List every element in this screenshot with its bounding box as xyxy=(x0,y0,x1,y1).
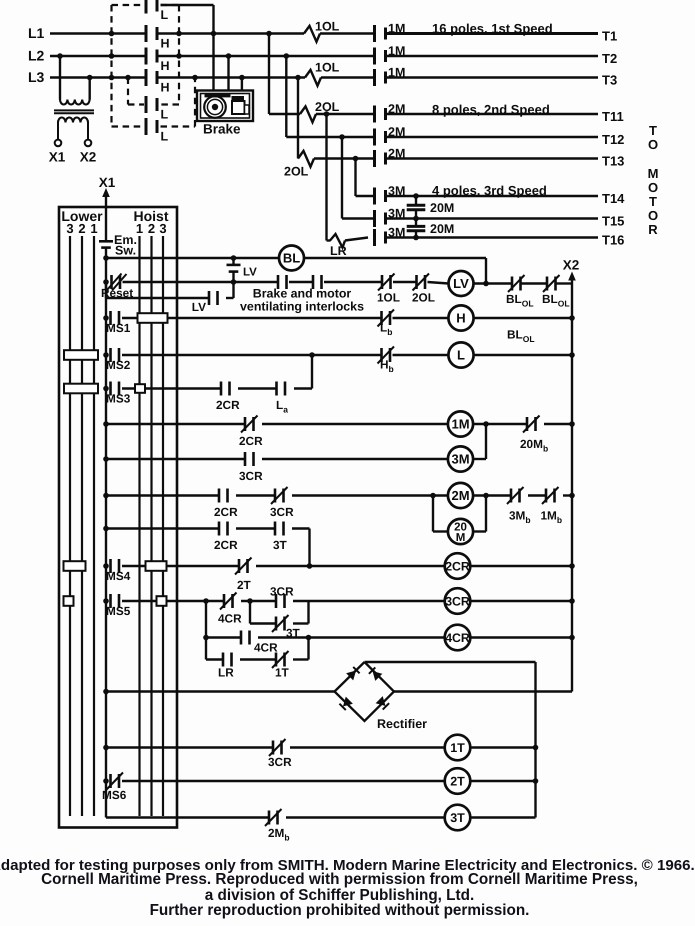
svg-text:2M: 2M xyxy=(388,102,405,116)
svg-text:1OL: 1OL xyxy=(377,291,400,305)
svg-text:2CR: 2CR xyxy=(445,560,470,574)
svg-text:2: 2 xyxy=(78,221,85,236)
svg-text:3M: 3M xyxy=(388,226,405,240)
svg-text:T1: T1 xyxy=(602,29,617,44)
svg-text:2: 2 xyxy=(148,221,155,236)
svg-text:T3: T3 xyxy=(602,73,617,88)
svg-text:M: M xyxy=(648,166,659,181)
svg-text:1T: 1T xyxy=(450,741,465,755)
svg-text:L2: L2 xyxy=(28,48,45,64)
svg-text:MS1: MS1 xyxy=(106,321,131,335)
svg-text:2CR: 2CR xyxy=(214,538,238,552)
svg-text:T11: T11 xyxy=(602,109,624,124)
svg-text:MS4: MS4 xyxy=(106,569,131,583)
svg-text:LV: LV xyxy=(243,267,257,279)
svg-text:MS5: MS5 xyxy=(106,604,131,618)
svg-text:3T: 3T xyxy=(450,811,465,825)
svg-text:2M: 2M xyxy=(388,147,405,161)
svg-text:4CR: 4CR xyxy=(218,612,242,626)
svg-text:2OL: 2OL xyxy=(315,100,340,114)
svg-text:1M: 1M xyxy=(451,417,469,432)
svg-text:1OL: 1OL xyxy=(315,61,340,75)
svg-text:H: H xyxy=(161,37,170,51)
svg-text:1OL: 1OL xyxy=(315,20,340,34)
svg-text:T12: T12 xyxy=(602,132,624,147)
svg-text:L: L xyxy=(457,348,465,363)
svg-text:4 poles, 3rd Speed: 4 poles, 3rd Speed xyxy=(432,183,547,198)
svg-text:2CR: 2CR xyxy=(214,505,238,519)
svg-text:1M: 1M xyxy=(388,22,405,36)
svg-text:ventilating interlocks: ventilating interlocks xyxy=(240,300,364,314)
svg-text:LV: LV xyxy=(453,276,469,291)
svg-text:3M: 3M xyxy=(388,184,405,198)
svg-text:2CR: 2CR xyxy=(239,434,263,448)
svg-text:T2: T2 xyxy=(602,51,617,66)
svg-text:1: 1 xyxy=(90,221,97,236)
svg-text:2CR: 2CR xyxy=(216,398,240,412)
svg-text:2OL: 2OL xyxy=(284,165,309,179)
svg-text:2M: 2M xyxy=(388,125,405,139)
svg-text:T14: T14 xyxy=(602,191,625,206)
svg-text:3CR: 3CR xyxy=(268,755,292,769)
svg-text:3: 3 xyxy=(66,221,73,236)
svg-text:L: L xyxy=(161,108,169,122)
svg-text:X2: X2 xyxy=(563,258,580,273)
svg-text:T16: T16 xyxy=(602,233,624,248)
svg-text:1M: 1M xyxy=(388,44,405,58)
svg-text:H: H xyxy=(161,81,170,95)
svg-text:20M: 20M xyxy=(430,222,454,236)
svg-text:3CR: 3CR xyxy=(270,585,294,599)
svg-text:MS3: MS3 xyxy=(106,392,131,406)
svg-text:T: T xyxy=(649,123,657,138)
svg-text:2T: 2T xyxy=(450,775,465,789)
svg-text:T: T xyxy=(649,194,657,209)
svg-text:3CR: 3CR xyxy=(239,469,263,483)
svg-text:Brake and motor: Brake and motor xyxy=(253,287,352,301)
svg-text:3M: 3M xyxy=(388,207,405,221)
svg-text:MS6: MS6 xyxy=(102,788,127,802)
svg-text:1T: 1T xyxy=(275,666,290,680)
svg-text:X1: X1 xyxy=(99,175,116,190)
svg-text:3CR: 3CR xyxy=(270,505,294,519)
svg-text:4CR: 4CR xyxy=(445,631,470,645)
svg-text:Rectifier: Rectifier xyxy=(377,717,427,731)
svg-text:Sw.: Sw. xyxy=(115,244,136,258)
svg-text:2OL: 2OL xyxy=(412,291,435,305)
svg-text:O: O xyxy=(648,180,658,195)
svg-text:L3: L3 xyxy=(28,69,45,85)
svg-text:X2: X2 xyxy=(80,150,97,165)
svg-text:T13: T13 xyxy=(602,154,624,169)
svg-text:T15: T15 xyxy=(602,214,624,229)
svg-text:O: O xyxy=(648,137,658,152)
svg-text:BL: BL xyxy=(283,251,300,266)
svg-text:LV: LV xyxy=(192,300,206,314)
svg-text:L1: L1 xyxy=(28,25,45,41)
svg-text:1: 1 xyxy=(136,221,143,236)
svg-text:R: R xyxy=(648,222,658,237)
svg-text:M: M xyxy=(456,532,466,544)
svg-text:L: L xyxy=(161,130,169,144)
svg-text:4CR: 4CR xyxy=(254,641,278,655)
svg-text:3: 3 xyxy=(159,221,166,236)
svg-text:3M: 3M xyxy=(451,452,469,467)
svg-text:LR: LR xyxy=(218,666,234,680)
svg-text:L: L xyxy=(161,8,169,22)
svg-text:2M: 2M xyxy=(451,488,469,503)
svg-text:O: O xyxy=(648,208,658,223)
svg-text:2T: 2T xyxy=(237,578,252,592)
svg-text:H: H xyxy=(456,311,465,326)
svg-text:16 poles, 1st Speed: 16 poles, 1st Speed xyxy=(432,21,553,36)
svg-text:X1: X1 xyxy=(49,150,66,165)
svg-text:1M: 1M xyxy=(388,66,405,80)
svg-text:8 poles, 2nd Speed: 8 poles, 2nd Speed xyxy=(432,102,550,117)
svg-text:3T: 3T xyxy=(273,538,288,552)
svg-text:20M: 20M xyxy=(430,201,454,215)
svg-text:MS2: MS2 xyxy=(106,358,131,372)
svg-text:LR: LR xyxy=(330,244,347,258)
svg-text:3CR: 3CR xyxy=(445,595,470,609)
svg-text:Brake: Brake xyxy=(203,122,241,137)
svg-text:H: H xyxy=(161,59,170,73)
